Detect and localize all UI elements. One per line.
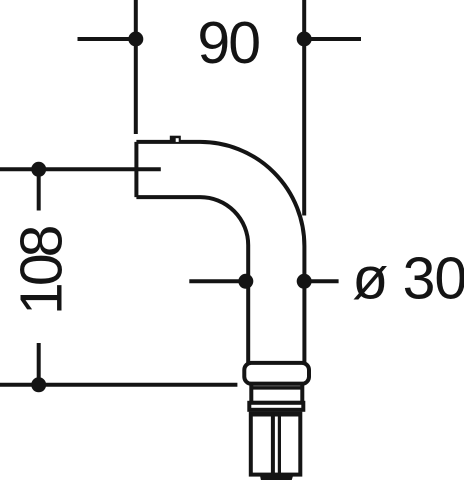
thread band B bbox=[249, 403, 303, 410]
svg-text:90: 90 bbox=[197, 10, 259, 76]
body slot line left bbox=[271, 414, 275, 477]
mounting body top edge (thick) bbox=[251, 412, 300, 417]
extension line bottom (108 dim) bbox=[0, 383, 237, 387]
extension line top (108 dim) bbox=[0, 167, 161, 171]
extension line left (90 dim) bbox=[134, 0, 138, 134]
dim dot left (dia 30) bbox=[238, 274, 253, 289]
dim stub left (dia 30) bbox=[189, 279, 246, 283]
dim dot left (90) bbox=[128, 32, 143, 47]
dim stub top (108) bbox=[37, 169, 41, 210]
extension line right (90 dim) bbox=[302, 0, 306, 216]
pipe elbow outer contour bbox=[136, 142, 304, 363]
tab on pipe top bbox=[170, 136, 181, 142]
mounting body bbox=[251, 414, 300, 475]
thread band A bbox=[251, 384, 302, 403]
tab notch bbox=[176, 138, 179, 142]
pipe elbow inner contour bbox=[136, 197, 248, 363]
dim stub right (90) bbox=[304, 37, 361, 41]
dim dot right (dia 30) bbox=[297, 274, 312, 289]
collar (wall rosette) bbox=[244, 363, 309, 384]
dim dot top (108) bbox=[31, 162, 46, 177]
svg-text:ø 30: ø 30 bbox=[352, 246, 464, 312]
pipe left end cap bbox=[134, 142, 138, 197]
dim dot bottom (108) bbox=[31, 377, 46, 392]
bolt tip (filled) bbox=[260, 475, 294, 480]
dim stub left (90) bbox=[78, 37, 136, 41]
dim stub right (dia 30) bbox=[304, 279, 338, 283]
svg-text:108: 108 bbox=[9, 226, 75, 315]
body slot line right bbox=[278, 414, 281, 477]
dim dot right (90) bbox=[297, 32, 312, 47]
dim stub bottom (108) bbox=[37, 343, 41, 385]
thread band A inner line bbox=[251, 386, 302, 390]
